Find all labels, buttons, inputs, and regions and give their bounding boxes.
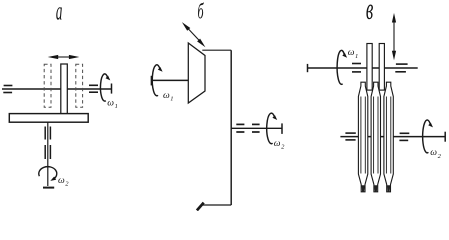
friction wheel (variant a)	[61, 64, 68, 114]
bearing upper on vertical shaft	[45, 127, 50, 140]
shaft end bar left (variant v, omega1)	[307, 64, 309, 72]
svg-text:а: а	[56, 0, 63, 26]
svg-text:2: 2	[438, 153, 442, 160]
svg-text:ω: ω	[107, 98, 114, 108]
dashed ghost wheel left position	[44, 64, 51, 107]
shaft end bar (variant b, omega1)	[150, 76, 152, 86]
wire: bottom link	[203, 204, 232, 206]
svg-text:2: 2	[281, 144, 285, 151]
svg-text:1: 1	[355, 53, 358, 60]
label omega2 (variant a)	[58, 176, 69, 188]
shaft end bar (variant b, omega2)	[281, 123, 283, 133]
cone (variant b)	[188, 43, 205, 103]
rotation arc omega1 (variant b)	[152, 65, 160, 96]
dashed ghost wheel right position	[76, 64, 83, 107]
bearing right (variant a)	[89, 85, 98, 92]
wire: input shaft omega1 (variant a)	[2, 88, 112, 90]
bearing A upper shaft (variant v)	[352, 64, 361, 72]
slide double arrow vertical (variant v)	[392, 13, 396, 60]
wire: input shaft omega1 (variant v)	[308, 67, 418, 69]
rotation arc omega1 (variant a)	[100, 74, 107, 101]
disk plate (variant a)	[9, 114, 88, 123]
bearing B upper shaft right (variant v)	[395, 64, 407, 72]
wire: input shaft omega1 (variant b)	[151, 79, 189, 81]
label omega2 (variant v)	[430, 148, 441, 160]
rotation arc omega2 (variant v)	[423, 120, 431, 153]
svg-text:ω: ω	[58, 176, 65, 186]
svg-text:1: 1	[115, 103, 118, 110]
svg-text:б: б	[198, 0, 205, 24]
label omega2 (variant b)	[274, 139, 285, 151]
rotation arc omega2 (variant a)	[39, 167, 57, 180]
rotation arc omega1 (variant v)	[337, 50, 345, 84]
svg-text:ω: ω	[274, 139, 281, 149]
variant label б	[198, 0, 205, 24]
svg-text:2: 2	[65, 181, 69, 188]
driving disk 1 (variant v)	[367, 44, 372, 91]
svg-text:ω: ω	[163, 91, 170, 101]
shaft end bar right (variant v, omega2)	[444, 132, 446, 142]
label omega1 (variant b)	[163, 91, 174, 103]
bearing group 1 (variant b)	[236, 124, 244, 132]
bearing left end (variant a)	[3, 86, 12, 93]
svg-text:ω: ω	[348, 48, 355, 58]
label omega1 (variant a)	[107, 98, 118, 110]
variant label а	[56, 0, 63, 26]
bearing D lower shaft right (variant v)	[399, 133, 409, 140]
bearing C lower shaft left (variant v)	[345, 133, 355, 140]
svg-text:ω: ω	[430, 148, 437, 158]
ring / output wheel edge (variant b)	[230, 50, 232, 205]
label omega1 (variant v)	[348, 48, 359, 60]
arrow tick at bottom link end	[197, 203, 204, 211]
shaft end bar bottom (variant a)	[43, 187, 54, 189]
slide double arrow diagonal (variant b)	[182, 22, 206, 47]
driven disk 1 (variant v)	[358, 82, 367, 192]
svg-text:в: в	[366, 0, 373, 26]
slide double arrow (variant a)	[48, 55, 80, 59]
driven disk 2 (variant v)	[371, 82, 380, 192]
driven disk 3 (variant v)	[384, 82, 393, 192]
bearing lower on vertical shaft	[45, 145, 50, 159]
wire: vertical output shaft (variant a)	[47, 122, 49, 186]
wire: output shaft omega2 (variant v)	[340, 136, 445, 138]
bearing group 2 (variant b)	[252, 124, 260, 132]
variant label в	[366, 0, 373, 26]
shaft end bar (variant a, omega1)	[111, 84, 113, 94]
svg-text:1: 1	[170, 96, 173, 103]
rotation arc omega2 (variant b)	[267, 113, 275, 144]
driving disk 2 (variant v)	[379, 44, 384, 91]
wire: top link to ring	[202, 49, 231, 51]
wire: output shaft omega2 (variant b)	[231, 127, 282, 129]
